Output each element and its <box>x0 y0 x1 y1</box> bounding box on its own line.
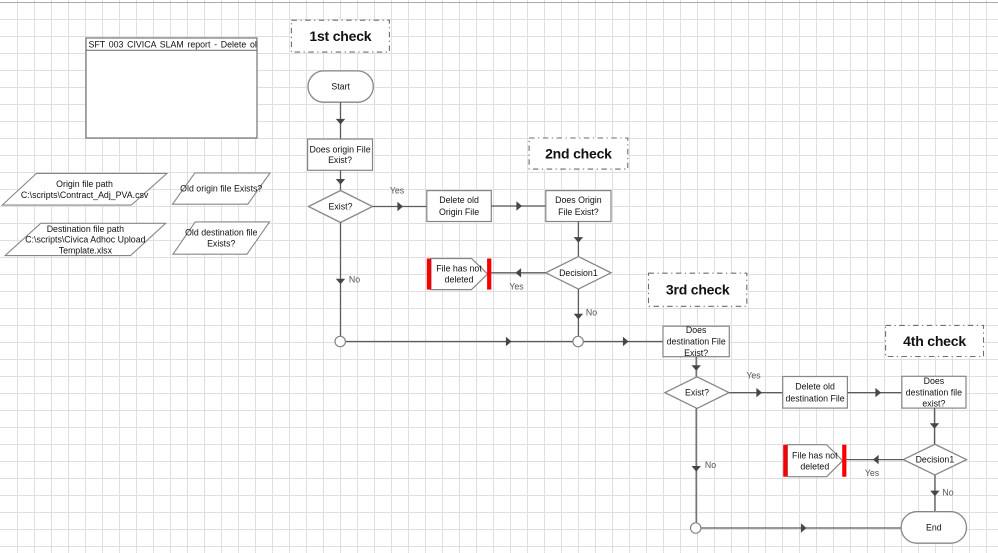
wire decision1b to file-has-not-deleted-2 <box>846 455 903 464</box>
svg-text:Old origin file Exists?: Old origin file Exists? <box>180 184 262 194</box>
svg-text:Exist?: Exist? <box>329 202 353 212</box>
data "Old destination file Exists?" <box>173 222 270 254</box>
svg-text:Does Origin: Does Origin <box>555 195 602 205</box>
wire decision1a to file-has-not-deleted-1 <box>491 268 546 277</box>
label "Yes" (decision1 destination) <box>865 468 880 478</box>
process "Delete old Origin File" <box>427 191 492 222</box>
process "Does destination file exist?" <box>902 376 966 409</box>
svg-text:Exist?: Exist? <box>328 155 352 165</box>
wire delete-old-destination to does-destination-exist2 <box>847 388 901 397</box>
data "Destination file path" <box>5 223 166 255</box>
svg-text:Does: Does <box>924 376 945 386</box>
decision "Exist?" (origin) <box>309 191 373 223</box>
svg-text:Exist?: Exist? <box>684 348 708 358</box>
svg-text:Yes: Yes <box>390 185 405 195</box>
svg-text:Delete old: Delete old <box>439 195 479 205</box>
svg-text:No: No <box>586 308 597 318</box>
terminator "File has not deleted" (origin) <box>427 259 492 290</box>
process "Does origin File Exist?" <box>308 139 373 170</box>
svg-text:Does: Does <box>686 325 707 335</box>
svg-text:Destination file path: Destination file path <box>47 224 124 234</box>
label "No" (decision1 origin) <box>586 308 597 318</box>
wire junction-2 to does-destination-exist <box>583 337 663 346</box>
svg-text:destination File: destination File <box>667 337 726 347</box>
svg-text:Origin file path: Origin file path <box>56 179 113 189</box>
svg-text:Origin File: Origin File <box>439 207 479 217</box>
svg-text:File Exist?: File Exist? <box>558 207 599 217</box>
svg-text:destination File: destination File <box>785 393 844 403</box>
svg-text:No: No <box>942 487 953 497</box>
svg-text:Delete old: Delete old <box>795 381 835 391</box>
svg-text:Exists?: Exists? <box>207 239 235 249</box>
svg-text:3rd check: 3rd check <box>666 282 730 298</box>
wire does-destination-exist2 to decision1b <box>930 408 939 444</box>
svg-text:No: No <box>705 460 716 470</box>
wire exist-destination no to junction-3 <box>692 408 701 523</box>
svg-text:File has not: File has not <box>436 264 482 274</box>
svg-text:2nd check: 2nd check <box>545 146 612 162</box>
label "Yes" (decision1 origin) <box>509 281 524 291</box>
label "No" (destination exists) <box>705 460 716 470</box>
label "No" (decision1 destination) <box>942 487 953 497</box>
data "Old origin file Exists?" <box>173 173 271 204</box>
process "Delete old destination File" <box>783 377 848 409</box>
start node <box>308 71 373 102</box>
svg-text:deleted: deleted <box>445 275 474 285</box>
wire decision1b no to end <box>930 475 939 512</box>
wire decision1a no to junction-2 <box>574 289 583 336</box>
decision "Decision1" (origin) <box>546 257 611 290</box>
frame "2nd check" <box>529 138 628 169</box>
svg-text:Template.xlsx: Template.xlsx <box>59 245 113 255</box>
terminator "File has not deleted" (destination) <box>783 445 846 477</box>
svg-text:SFT 003 CIVICA SLAM report - D: SFT 003 CIVICA SLAM report - Delete ol <box>89 40 257 50</box>
svg-text:Decision1: Decision1 <box>916 455 955 465</box>
decision "Exist?" (destination) <box>665 377 729 409</box>
svg-text:1st check: 1st check <box>309 28 371 44</box>
svg-text:C:\scripts\Civica Adhoc Upload: C:\scripts\Civica Adhoc Upload <box>25 235 145 245</box>
junction node 2 <box>573 336 583 346</box>
svg-text:End: End <box>926 523 942 533</box>
wire start to does-origin-file-exist <box>336 103 345 140</box>
svg-text:exist?: exist? <box>922 399 945 409</box>
title box "SFT 003 CIVICA SLAM report - Delete ol" <box>86 38 257 138</box>
svg-text:Yes: Yes <box>746 371 761 381</box>
svg-text:4th check: 4th check <box>903 333 966 349</box>
svg-text:File has not: File has not <box>792 450 838 460</box>
svg-text:Start: Start <box>331 82 350 92</box>
svg-text:Decision1: Decision1 <box>559 268 598 278</box>
decision "Decision1" (destination) <box>903 444 966 475</box>
svg-text:deleted: deleted <box>800 461 829 471</box>
wire junction-1 to junction-2 <box>345 337 573 346</box>
svg-text:C:\scripts\Contract_Adj_PVA.cs: C:\scripts\Contract_Adj_PVA.csv <box>21 190 149 200</box>
svg-text:No: No <box>349 274 360 284</box>
wire junction-3 to end <box>701 523 901 532</box>
frame "1st check" <box>291 20 389 52</box>
svg-text:destination file: destination file <box>906 387 962 397</box>
label "No" (origin exists) <box>349 274 360 284</box>
wire does-origin-exist2 to decision1a <box>574 222 583 257</box>
wire exist-destination to delete-old-destination <box>729 388 782 397</box>
frame "3rd check" <box>649 273 747 306</box>
wire exist-origin to delete-old-origin <box>373 202 427 211</box>
svg-text:Does origin File: Does origin File <box>309 145 370 155</box>
junction node 1 <box>335 336 345 346</box>
junction node 3 <box>691 523 701 533</box>
wire does-origin to exist-decision <box>336 170 345 190</box>
end node <box>901 512 966 544</box>
svg-text:Exist?: Exist? <box>685 388 709 398</box>
svg-text:Yes: Yes <box>865 468 880 478</box>
data "Origin file path" <box>2 173 167 205</box>
process "Does Origin File Exist?" <box>546 191 611 222</box>
svg-text:Yes: Yes <box>509 281 524 291</box>
svg-text:Old destination file: Old destination file <box>185 228 257 238</box>
process "Does destination File Exist?" <box>663 325 729 358</box>
label "Yes" (destination exists) <box>746 371 761 381</box>
wire delete-old-origin to does-origin-exist2 <box>491 201 546 210</box>
wire exist-origin no to junction-1 <box>336 223 345 337</box>
wire does-destination to exist-decision-2 <box>692 357 701 377</box>
frame "4th check" <box>886 325 984 356</box>
label "Yes" (origin exists) <box>390 185 405 195</box>
